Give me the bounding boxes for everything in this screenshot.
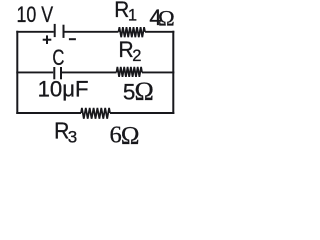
wire top right segment [145,31,174,33]
label R1 [114,0,137,25]
wire left vertical [16,31,18,114]
wire right vertical [172,31,174,114]
svg-text:1: 1 [128,7,137,25]
svg-text:C: C [52,45,64,70]
resistor R1 [119,27,146,37]
svg-text:10μF: 10μF [38,76,89,101]
wire top middle segment [64,31,118,33]
label 6 ohm [110,121,140,149]
battery B1 10 V [55,24,64,38]
label - polarity [69,38,76,40]
label + polarity [43,35,52,44]
svg-text:Ω: Ω [121,122,140,149]
wire middle right segment [142,71,174,73]
label 10 uF [38,76,89,101]
svg-text:10 V: 10 V [17,2,54,27]
capacitor C [54,67,61,79]
label C [52,45,64,70]
svg-text:Ω: Ω [158,6,175,31]
label 10 V [17,2,54,27]
label 4 ohm [149,5,174,31]
wire top left segment [16,31,54,33]
svg-text:Ω: Ω [135,77,154,106]
resistor R2 [117,67,143,77]
wire bottom right segment [110,112,174,114]
wire middle left segment [16,71,53,73]
label R2 [118,37,141,65]
label R3 [54,118,77,147]
resistor R3 [81,108,110,119]
wire bottom left segment [16,112,81,114]
svg-text:3: 3 [68,128,77,147]
wire middle centre segment [62,71,117,73]
label 5 ohm [123,77,154,106]
svg-text:2: 2 [132,47,141,65]
